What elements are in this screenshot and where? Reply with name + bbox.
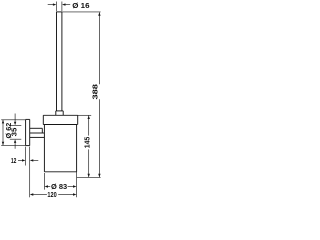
svg-text:12: 12 <box>11 158 17 165</box>
svg-text:Ø 16: Ø 16 <box>72 3 89 10</box>
svg-text:120: 120 <box>47 192 56 199</box>
svg-text:Ø 83: Ø 83 <box>51 184 67 191</box>
svg-text:145: 145 <box>84 137 91 149</box>
svg-text:388: 388 <box>93 84 100 100</box>
svg-text:35: 35 <box>12 128 19 137</box>
